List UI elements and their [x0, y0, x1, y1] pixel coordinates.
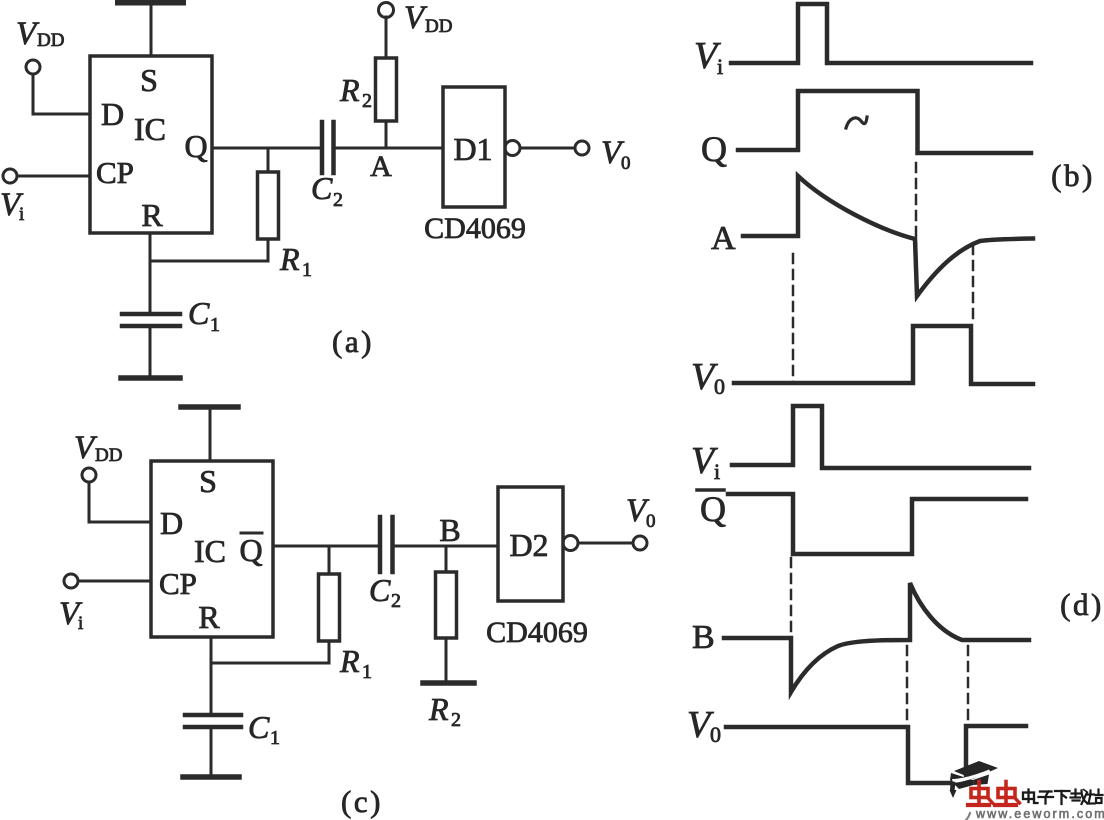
svg-text:2: 2: [333, 189, 343, 211]
inverter D1 box: [443, 87, 505, 207]
trace Q (wave b): [738, 91, 1031, 153]
watermark text zi (child): [1039, 792, 1054, 804]
svg-text:0: 0: [710, 722, 721, 747]
trace Qbar (wave d): [728, 494, 1026, 554]
dashed timing line t2 (wave b): [915, 163, 918, 275]
watermark red character chong 1: [968, 782, 993, 806]
wire D2 output to V0 (c): [578, 542, 633, 545]
wire R pin down (c): [210, 637, 213, 713]
dashed timing line t1 (wave b): [792, 254, 795, 383]
svg-text:1: 1: [302, 259, 312, 281]
svg-text:2: 2: [451, 709, 461, 731]
capacitor C2 (c): [380, 517, 393, 572]
wire junction to R1 top (c): [328, 546, 331, 574]
dashed timing line t2 (wave d): [906, 646, 909, 725]
svg-text:2: 2: [391, 590, 401, 612]
svg-text:DD: DD: [95, 445, 122, 466]
wire Vi to CP pin (a): [17, 175, 90, 178]
resistor R1 (c): [319, 574, 340, 641]
trace B exponential (wave d): [724, 583, 1029, 692]
ground (c R2): [423, 680, 474, 686]
capacitor C2 (a): [322, 122, 334, 173]
watermark text xia (down): [1055, 791, 1070, 804]
trace Vi (wave b): [731, 4, 1031, 63]
svg-text:R: R: [428, 691, 449, 727]
wire VDD to D pin (c): [89, 482, 151, 522]
svg-text:DD: DD: [425, 16, 452, 37]
capacitor C1 (c): [185, 715, 241, 727]
label V0 (wave b): [691, 356, 725, 399]
wire Vi to CP pin (c): [78, 580, 151, 583]
svg-text:C: C: [188, 295, 210, 331]
wire R pin down (a): [149, 233, 152, 312]
label R2 (a): [339, 72, 372, 112]
wire D1 output to V0 (a): [520, 147, 575, 150]
svg-text:R: R: [279, 241, 300, 277]
svg-text:IC: IC: [134, 111, 166, 147]
label V0 (a): [601, 135, 631, 174]
label Vi (a): [0, 187, 24, 225]
wire R2 bottom to node A: [385, 121, 388, 148]
tilde mark on Q pulse: [846, 117, 867, 128]
label Qbar (wave d): [697, 489, 726, 529]
svg-text:S: S: [199, 463, 217, 499]
wire C2 to D2 input, node B net (c): [395, 545, 499, 548]
svg-text:R: R: [339, 643, 360, 679]
svg-text:S: S: [140, 62, 158, 98]
label C1 (c): [248, 709, 280, 749]
watermark red character chong 2: [995, 782, 1020, 806]
IC U1 D flip-flop box (circuit a): [90, 56, 212, 233]
svg-text:C: C: [248, 709, 270, 745]
power rail bar (S input, circuit a): [118, 0, 183, 6]
svg-text:A: A: [711, 220, 736, 257]
svg-text:R: R: [198, 599, 220, 635]
dashed timing line t1 (wave d): [790, 558, 793, 636]
terminal V0 (c): [633, 536, 647, 550]
label VDD (c): [74, 430, 122, 466]
label Vi (wave b): [694, 35, 723, 79]
label Vi (wave d): [691, 440, 720, 484]
svg-text:i: i: [714, 459, 720, 484]
wire C1 to ground (c): [210, 729, 213, 775]
svg-text:i: i: [78, 613, 83, 634]
label C1 (a): [188, 295, 220, 336]
svg-text:(a): (a): [332, 324, 374, 359]
ground (a C1): [121, 375, 180, 381]
svg-text:D2: D2: [509, 527, 548, 563]
svg-text:Q: Q: [239, 532, 262, 568]
svg-text:B: B: [692, 619, 715, 656]
svg-text:C: C: [369, 572, 391, 608]
label VDD at R2 (a): [404, 0, 452, 37]
svg-text:CD4069: CD4069: [486, 616, 588, 649]
wire node B to R2 top (c): [445, 546, 448, 572]
resistor R2 (a): [376, 58, 397, 121]
svg-text:0: 0: [621, 153, 631, 174]
wire R2 top to VDD (a): [385, 17, 388, 58]
svg-text:CD4069: CD4069: [424, 212, 526, 245]
capacitor C1 (a): [122, 314, 180, 326]
dashed timing line t3 (wave d): [967, 646, 970, 723]
wire Q output to C2 (a): [212, 147, 320, 150]
svg-text:i: i: [717, 54, 723, 79]
power rail bar (S input, circuit c): [181, 404, 238, 410]
wire Qbar output to C2 (c): [273, 545, 378, 548]
trace A exponential (wave b): [743, 176, 1033, 296]
wire R1 bottom to R pin net (a): [150, 239, 268, 261]
watermark comma mark: [966, 813, 970, 820]
svg-text:B: B: [439, 512, 460, 548]
wire R1 bottom to R pin net (c): [211, 641, 329, 663]
wire VDD to D pin (a): [33, 74, 90, 114]
wire C2 to D1 input, node A net (a): [336, 147, 444, 150]
trace Vi (wave d): [732, 406, 1029, 468]
inverter D2 box: [498, 487, 563, 601]
inverter bubble D1: [505, 141, 520, 156]
label C2 (a): [311, 170, 343, 211]
svg-text:IC: IC: [194, 533, 226, 569]
terminal Vi (a): [3, 169, 17, 183]
label R1 (a): [279, 241, 312, 281]
svg-text:CP: CP: [159, 566, 197, 601]
svg-text:1: 1: [362, 661, 372, 683]
terminal VDD (c): [82, 468, 96, 482]
terminal V0 (a): [575, 141, 589, 155]
label Vi (c): [59, 596, 83, 634]
watermark text zai (load): [1071, 790, 1088, 805]
terminal Vi (c): [64, 574, 78, 588]
resistor R1 (a): [258, 172, 279, 239]
label V0 (c): [626, 493, 656, 532]
label R2 (c): [428, 691, 461, 731]
wire R2 bottom to ground (c): [445, 638, 448, 681]
watermark text dian (electric): [1023, 790, 1038, 804]
svg-text:(b): (b): [1051, 158, 1095, 193]
watermark text zhan (station): [1088, 790, 1103, 804]
IC U2 D flip-flop box (circuit c): [151, 461, 273, 637]
label R1 (c): [339, 643, 372, 683]
svg-text:0: 0: [714, 374, 725, 399]
wire S stub (circuit a): [150, 6, 153, 56]
svg-text:1: 1: [210, 314, 220, 336]
trace V0 (wave d): [726, 726, 1026, 783]
svg-text:DD: DD: [37, 30, 64, 51]
terminal VDD at R2 (a): [379, 3, 394, 18]
wire S stub (circuit c): [209, 409, 212, 461]
svg-text:R: R: [141, 197, 163, 233]
svg-text:1: 1: [270, 727, 280, 749]
ground (c C1): [183, 774, 239, 780]
svg-text:(d): (d): [1060, 587, 1104, 622]
svg-text:(c): (c): [341, 784, 383, 819]
svg-text:Q: Q: [700, 489, 726, 529]
trace V0 (wave b): [734, 326, 1033, 384]
watermark graduation cap logo: [950, 761, 999, 798]
resistor R2 (c): [436, 572, 457, 638]
svg-text:Q: Q: [701, 129, 727, 169]
label C2 (c): [369, 572, 401, 612]
svg-text:D1: D1: [453, 131, 492, 167]
svg-text:2: 2: [362, 90, 372, 112]
dashed timing line t3 (wave b): [972, 245, 975, 325]
svg-text:A: A: [370, 150, 392, 183]
svg-text:0: 0: [646, 511, 656, 532]
svg-text:R: R: [339, 72, 360, 108]
svg-text:C: C: [311, 170, 333, 206]
label V0 (wave d): [687, 704, 721, 747]
svg-text:D: D: [101, 96, 124, 132]
svg-text:Q: Q: [184, 128, 207, 164]
inverter bubble D2: [563, 536, 578, 551]
svg-text:www.eeworm.com: www.eeworm.com: [975, 807, 1104, 820]
svg-text:D: D: [160, 505, 183, 541]
pin label Qbar (c): [239, 532, 262, 568]
svg-text:i: i: [19, 204, 24, 225]
wire junction to R1 top (a): [267, 148, 270, 172]
svg-text:CP: CP: [96, 155, 134, 190]
label VDD (a): [16, 16, 64, 52]
wire C1 to ground (a): [149, 328, 152, 376]
terminal VDD (a): [26, 60, 40, 74]
